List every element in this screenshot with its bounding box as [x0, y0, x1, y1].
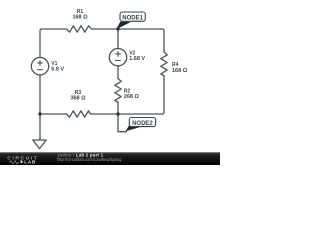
svg-text:LAB: LAB [24, 160, 36, 165]
wire: R3 to left junction [40, 113, 67, 115]
NODE2 flag pointer [126, 124, 141, 131]
resistor R2 [115, 79, 121, 103]
NODE2 label box [129, 118, 155, 127]
voltage source V1 [31, 57, 48, 74]
wire: NODE1 junction to top-right corner down to R4 [118, 29, 164, 52]
resistor R1 [67, 26, 92, 32]
svg-text:168 Ω: 168 Ω [72, 14, 88, 20]
svg-text:1.68 V: 1.68 V [129, 56, 145, 62]
resistor R4 [161, 52, 167, 76]
wire: V2 to R2 [117, 66, 119, 79]
wire: left rail top + top-left corner to R1 [40, 29, 67, 58]
CircuitLab logo [7, 156, 38, 166]
ground [33, 140, 46, 149]
NODE1 label box [120, 12, 145, 21]
node junction dot (NODE2) [116, 112, 119, 115]
wire: R1 to NODE1 junction [92, 28, 119, 30]
node A junction dot (NODE1) [116, 27, 119, 30]
voltage source V2 [109, 49, 126, 66]
V1 plus sign [37, 51, 121, 70]
wire: NODE1 junction down to V2 [117, 29, 119, 49]
svg-text:NODE2: NODE2 [132, 121, 153, 127]
V2 plus sign [115, 51, 121, 57]
wire: R4 bottom to bottom-right corner to R3 [91, 76, 165, 114]
svg-text:http://circuitlab.com/c2w9eqrh: http://circuitlab.com/c2w9eqrhpasq [57, 157, 122, 162]
wire: R2 to bottom junction [117, 102, 119, 114]
wire: left rail bottom (V1 to bottom junction) [39, 75, 41, 114]
V2 minus sign [115, 59, 121, 61]
svg-text:6.8 V: 6.8 V [51, 66, 64, 72]
wire: NODE2 drop [118, 114, 127, 132]
node junction dot bottom-left [38, 112, 41, 115]
svg-text:168 Ω: 168 Ω [172, 68, 188, 74]
watermark bar [0, 152, 220, 165]
wire: ground lead [39, 114, 41, 140]
svg-text:368 Ω: 368 Ω [70, 95, 86, 101]
NODE1 flag pointer [116, 22, 131, 30]
V1 minus sign [37, 69, 43, 71]
svg-text:NODE1: NODE1 [122, 15, 143, 21]
svg-text:268 Ω: 268 Ω [124, 94, 140, 100]
resistor R3 [67, 111, 91, 117]
